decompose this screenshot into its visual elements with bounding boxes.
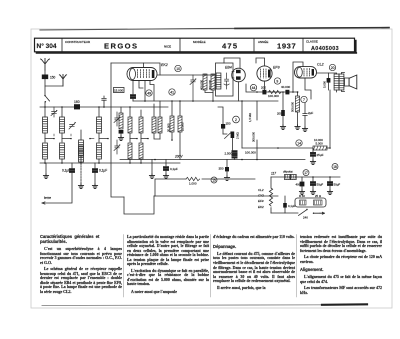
heater chain tube labels (258, 188, 264, 209)
svg-text:100.000: 100.000 (245, 151, 256, 155)
svg-text:NICE: NICE (164, 45, 171, 49)
screen rail y148 (242, 147, 313, 149)
capacitor C15 50uF (327, 177, 332, 194)
heater chain dropper (wavy) (269, 177, 272, 213)
svg-text:200: 200 (261, 86, 266, 90)
svg-text:49: 49 (147, 91, 151, 95)
svg-text:EK2: EK2 (161, 63, 168, 67)
label 0,1uF C3 (99, 169, 107, 173)
MF1 tuning capacitor (224, 73, 229, 89)
wire EF9 top feed (256, 58, 265, 66)
capacitor C3 0,1uF (92, 163, 97, 188)
filter rail y177 (271, 176, 340, 178)
svg-text:EF9: EF9 (273, 65, 280, 69)
svg-text:15.000: 15.000 (114, 88, 124, 92)
label 25.000 (rot) (180, 122, 184, 131)
cathode resistor R13 with cap (118, 107, 123, 140)
cathode return rail y196 (154, 195, 278, 197)
circled node 18 (332, 164, 338, 170)
svg-text:9: 9 (276, 79, 278, 83)
svg-text:25.000: 25.000 (180, 122, 184, 131)
label depolar (283, 170, 294, 174)
svg-text:50μF: 50μF (334, 182, 341, 186)
trimmer CT4 on AVC line (190, 75, 196, 101)
grid leak resistor R9 500.000 (295, 91, 300, 129)
svg-text:240: 240 (303, 216, 308, 220)
svg-text:400.000: 400.000 (200, 79, 204, 90)
svg-text:15: 15 (212, 178, 216, 182)
capacitor C14 50uF (310, 177, 315, 194)
AF coupling vertical x257 (256, 101, 258, 160)
capacitor C9 25uF (310, 148, 315, 164)
svg-text:18: 18 (333, 165, 337, 169)
resistor R12 25.000 (178, 101, 182, 160)
header card box (35, 38, 355, 52)
AF coupling vertical x242 (241, 101, 243, 148)
header divider 1 (61, 39, 63, 52)
coil L7 (lower) (97, 143, 102, 163)
label 200V (174, 155, 183, 159)
svg-text:7: 7 (303, 98, 305, 102)
svg-text:40.000: 40.000 (281, 85, 291, 89)
coil L4 (lower) (60, 143, 65, 163)
circled node 7 (301, 96, 307, 102)
label 300.000 (rot) (251, 131, 255, 142)
svg-text:CL2: CL2 (317, 63, 324, 67)
oscillator coil L13 (158, 101, 162, 139)
label 0,1uF C16 (288, 204, 296, 208)
svg-text:475: 475 (222, 42, 238, 51)
svg-text:CL2: CL2 (258, 188, 264, 192)
label 500.000 (rot) (291, 101, 295, 112)
label 400 (296, 183, 301, 187)
output transformer T1 (334, 73, 344, 93)
svg-text:20: 20 (331, 66, 335, 70)
svg-text:ANNÉE: ANNÉE (258, 39, 268, 44)
capacitor C1 160pF (series, black) (74, 104, 80, 109)
antenna A2 (59, 74, 66, 86)
label 200b (277, 112, 282, 116)
svg-text:44: 44 (252, 86, 256, 90)
pilot lamp capacitor C16 0,1uF (283, 196, 287, 213)
B+ top link wire (224, 58, 240, 68)
svg-text:dépolar.: dépolar. (283, 170, 294, 174)
label 160 (74, 100, 80, 104)
circled node 10 (175, 65, 181, 71)
svg-text:117: 117 (271, 172, 276, 176)
HT line from speaker field down x330 (329, 90, 331, 149)
circled node 17 (303, 170, 309, 176)
label 240 (303, 216, 308, 220)
circled node 49 (146, 90, 152, 96)
svg-text:1,5 MΩ: 1,5 MΩ (248, 113, 252, 122)
arrester (black block) on A1 lead (42, 70, 48, 95)
svg-text:MODÈLE: MODÈLE (193, 39, 206, 44)
svg-text:150: 150 (226, 122, 231, 126)
resistor R4 100.000 (zigzag) (269, 90, 282, 93)
svg-text:1937: 1937 (277, 42, 296, 51)
column rule 2 (210, 235, 212, 298)
label 25uF (317, 153, 324, 157)
ground G5 (149, 160, 154, 179)
text column 3 (213, 235, 295, 292)
svg-text:10: 10 (176, 67, 180, 71)
text column 1 (40, 235, 122, 296)
label 50uF C14 (317, 182, 324, 186)
capacitor C2 0,1uF to earth (42, 163, 75, 204)
label 1,5 MO (rot) (248, 113, 252, 122)
svg-text:150: 150 (50, 76, 56, 80)
speaker LS (345, 75, 357, 89)
AVC line y179 with resistor (155, 179, 255, 196)
svg-text:0,1μF: 0,1μF (288, 204, 296, 208)
mains line (271, 212, 320, 214)
svg-text:0,1μF: 0,1μF (170, 167, 178, 171)
oscillator coil L10 (lower) (128, 143, 132, 163)
svg-text:EF9: EF9 (258, 199, 264, 203)
resistor R2 400.000 (203, 74, 213, 93)
capacitor C4 (EK2 grid) (130, 95, 135, 101)
header divider 3 (253, 39, 255, 52)
decoupling capacitor C10 0,1uF (163, 160, 168, 179)
trimmer CT2 (114, 112, 120, 126)
oscillator coil L11 (lower) (139, 143, 143, 163)
switch S1 (antenna) (44, 95, 49, 107)
label EF9 (273, 65, 280, 69)
svg-text:2.500: 2.500 (225, 152, 233, 156)
label 150 (226, 122, 231, 126)
text column 2 (127, 235, 209, 296)
CL2 cathode wire (305, 78, 311, 99)
capacitor C8 2uF (303, 103, 307, 127)
ground G4 (302, 127, 307, 131)
chassis return loop bottom-left (124, 196, 154, 214)
svg-text:350: 350 (219, 167, 224, 171)
resistor R11 20.000 (170, 101, 174, 141)
text column 4 (300, 235, 382, 297)
oscillator coil L9 (139, 110, 143, 142)
lower bus wire y163 (40, 162, 180, 164)
trimmer CT1 (51, 107, 57, 117)
padder capacitor C13 2.500 (232, 151, 237, 160)
svg-text:0,1μF: 0,1μF (62, 169, 70, 173)
wire CL2 anode to output transformer (317, 72, 337, 74)
label 2 MO (rot) (236, 132, 240, 139)
coil L5 (oscillator GO tall) (79, 130, 84, 163)
label 300.000 (rot) (208, 79, 212, 90)
shield wall wire x111 (111, 63, 124, 197)
svg-text:200: 200 (277, 112, 282, 116)
resistor R6 1.000 (zigzag) (186, 177, 200, 180)
svg-text:CY2: CY2 (258, 194, 264, 198)
label 40.000 (281, 85, 291, 89)
diode load resistor R10 (black) (280, 91, 285, 129)
circled node 41 (169, 89, 175, 95)
wire EB4 cathode down (238, 82, 240, 101)
mains switch (299, 209, 315, 216)
label 50uF C15 (334, 182, 341, 186)
svg-text:17: 17 (304, 171, 308, 175)
label 200 (261, 86, 266, 90)
top wire to EK2 (111, 63, 160, 75)
svg-text:25μF: 25μF (317, 153, 324, 157)
header divider 4 (302, 39, 304, 52)
detection row wire y92 (246, 81, 298, 93)
svg-text:N° 304: N° 304 (37, 42, 57, 50)
column rule 3 (296, 235, 298, 298)
capacitor C7 5.000 (tone, black) (327, 73, 331, 90)
svg-text:20.000: 20.000 (167, 123, 171, 132)
oscillator coil L8 (128, 107, 132, 142)
svg-text:EB4: EB4 (225, 66, 232, 70)
ground G1 (43, 163, 48, 178)
circled node 15 (211, 177, 217, 183)
column rule 1 (123, 235, 125, 298)
label 2.500 (225, 152, 233, 156)
svg-text:14: 14 (297, 141, 301, 145)
label R 50 (299, 194, 321, 198)
padding capacitor CP1 (89, 138, 94, 139)
circled node 44 (250, 84, 256, 90)
svg-text:41: 41 (170, 90, 174, 94)
capacitor C11 350 (224, 160, 229, 181)
coupling capacitor C17 (102, 96, 106, 108)
double diode EB4 (232, 68, 246, 82)
coil L2 (antenna PO) (60, 107, 65, 142)
label 0,1uF C10 (170, 167, 178, 171)
svg-text:100.000: 100.000 (268, 94, 279, 98)
resistor R5 10.000/5.000 (hatched, horizontal) (313, 146, 330, 150)
svg-text:terre: terre (44, 196, 51, 200)
circled node 14 (296, 140, 302, 146)
label EB4 (225, 66, 232, 70)
svg-text:400: 400 (296, 183, 301, 187)
svg-text:500.000: 500.000 (291, 101, 295, 112)
svg-text:300.000: 300.000 (251, 131, 255, 142)
oscillator coil L12 (152, 104, 160, 139)
label 5.000 (rot) (322, 81, 326, 88)
page frame (faint scan border) (31, 29, 392, 308)
resistor R7 volume (small black) (231, 132, 235, 152)
label EK2 (161, 63, 168, 67)
ground G2 (78, 163, 83, 188)
circled node 20 (329, 64, 335, 70)
mains arrow secteur (320, 212, 325, 214)
label 100.000 (268, 94, 279, 98)
svg-text:CONSTRUCTEUR: CONSTRUCTEUR (65, 40, 91, 44)
band switch contacts row y139 (45, 134, 72, 139)
octode tube EK2 (127, 63, 157, 81)
svg-text:0,1μF: 0,1μF (99, 169, 107, 173)
EK2 pin wires (133, 81, 154, 102)
resistor R3 300.000 (211, 74, 215, 101)
svg-text:50μF: 50μF (317, 182, 324, 186)
capacitor C6 40.000 (black) (285, 90, 289, 95)
svg-text:ERGOS: ERGOS (104, 42, 138, 51)
antenna A1 (41, 59, 50, 71)
label 2uF (308, 111, 313, 115)
svg-text:R 50: R 50 (299, 194, 305, 198)
B+ rail 200V y159 (120, 159, 305, 161)
barretter unit (295, 198, 326, 207)
trimmer CT3 (114, 140, 120, 154)
svg-text:CLASSE: CLASSE (306, 40, 318, 44)
label 117 (271, 172, 276, 176)
svg-text:2: 2 (235, 118, 237, 122)
trimmer arrow CT5 (69, 122, 76, 129)
wire to CL2 grid (top cap) (292, 62, 303, 93)
MF1 primary coil (216, 73, 221, 89)
circled node 9 (274, 78, 280, 84)
svg-text:25 Ω: 25 Ω (315, 194, 321, 198)
resistor R1 15.000 (grid box) (114, 88, 125, 93)
label 100.000b (245, 151, 256, 155)
output pentode CL2 (295, 67, 317, 78)
circled node 2 (233, 116, 240, 123)
svg-text:160: 160 (74, 100, 80, 104)
coil L6 (97, 107, 109, 142)
coil L1 (antenna OC) (43, 107, 48, 142)
capacitor C5 200 (black) (262, 90, 266, 95)
header divider 2 (179, 39, 181, 52)
wire EK2 anode to IF can (157, 74, 215, 76)
capacitor C12 150 (black) (218, 107, 225, 134)
svg-text:2 MΩ: 2 MΩ (236, 132, 240, 139)
switch contacts row2 (130, 138, 149, 139)
antenna bus wire y107 (40, 106, 168, 108)
label 350 (219, 167, 224, 171)
pentode EF9 (257, 66, 272, 81)
label 1.000 (189, 181, 197, 185)
IF transformer can MF1 (216, 63, 234, 96)
top rule (40, 28, 389, 30)
bottom rule (42, 304, 322, 307)
grid return rail y101 (133, 100, 278, 102)
svg-text:5.000: 5.000 (316, 142, 324, 146)
label CL2 (317, 63, 324, 67)
svg-text:200V: 200V (174, 155, 183, 159)
potentiometer arrow (223, 132, 232, 139)
svg-text:2μF: 2μF (308, 111, 313, 115)
wire A2 to A1 lead (45, 85, 63, 87)
label 10.000 5.000 (314, 138, 323, 146)
field coil / choke (hatched pair) (285, 174, 297, 179)
coil L3 (antenna GO, lower) (43, 143, 48, 163)
svg-text:1.000: 1.000 (189, 181, 197, 185)
label 0,1uF C2 (62, 169, 70, 173)
resistor R8 300 (black) (299, 177, 304, 194)
svg-text:300.000: 300.000 (208, 79, 212, 90)
label terre (44, 196, 51, 200)
svg-text:A0405003: A0405003 (311, 46, 339, 52)
label 20.000 (rot) (167, 123, 171, 132)
label 150 (arrester) (50, 76, 56, 80)
svg-text:5.000: 5.000 (322, 81, 326, 88)
svg-text:EK2: EK2 (258, 205, 264, 209)
label 400.000 (rot) (200, 79, 204, 90)
